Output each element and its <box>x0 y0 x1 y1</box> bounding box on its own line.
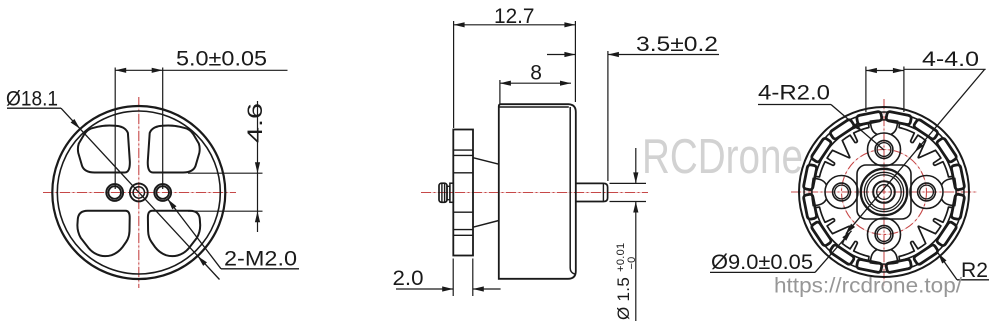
stator tooth strips (4 quadrants) <box>899 123 953 177</box>
base plate section line 6 <box>453 234 473 236</box>
svg-text:Ø9.0±0.05: Ø9.0±0.05 <box>711 251 813 274</box>
dimension 2.0 line and arrows <box>396 288 453 290</box>
dimension 4.6 extension lines <box>188 172 263 174</box>
magnet ring segments <box>803 164 817 190</box>
stator transition slant bottom <box>473 221 499 228</box>
label 4-R2.0 leader <box>831 105 884 151</box>
svg-text:5.0±0.05: 5.0±0.05 <box>176 48 267 71</box>
dimension 5.0±0.05 extension lines <box>114 68 116 190</box>
dimension 12.7 line and arrows <box>454 24 576 26</box>
dimension Ø1.5 line and arrows <box>635 148 637 183</box>
left view centerline horizontal <box>43 192 236 194</box>
center shaft circles <box>873 181 895 203</box>
left view centerline vertical <box>138 97 140 288</box>
svg-text:Ø18.1: Ø18.1 <box>6 88 58 111</box>
right view bolt circle (red) <box>842 150 927 235</box>
svg-text:3.5±0.2: 3.5±0.2 <box>636 33 718 56</box>
label 4-R2.0 underline <box>758 104 831 106</box>
dimension 4-4.0 extension lines <box>865 67 867 113</box>
stator crowns at N/E/S/W <box>870 120 897 135</box>
shaft left neck <box>447 186 450 199</box>
label Ø18.1 diameter leader line <box>61 108 220 279</box>
label Ø9.0±0.05 leader <box>815 231 852 273</box>
motor bell outline <box>499 104 576 279</box>
dimension 5.0±0.05 line and arrows <box>115 69 287 71</box>
screw hole pods <box>868 133 901 166</box>
base plate section line 3 <box>453 172 473 174</box>
svg-text:8: 8 <box>530 61 542 84</box>
center boss circles <box>861 169 907 215</box>
Ø18.1 arrowhead at bottom-right circle edge <box>198 256 207 266</box>
base plate section line 4 <box>453 211 473 213</box>
svg-text:4-R2.0: 4-R2.0 <box>758 82 830 105</box>
label 2-M2.0 leader with arrowhead at right M2 hole <box>168 199 221 269</box>
M2 screw hole left <box>106 184 123 201</box>
base cutout top-left <box>78 125 130 172</box>
dimension 4.6 line and arrows <box>257 101 259 232</box>
right view centerline horizontal <box>791 191 977 193</box>
base plate section line 5 <box>453 229 473 231</box>
Ø18.1 arrowhead at top-left circle edge <box>71 119 80 129</box>
dimension 3.5±0.2 line right <box>608 54 719 56</box>
motor bell inner wall right <box>570 107 574 274</box>
dimension 12.7 extension lines <box>453 21 455 128</box>
motor bell inner lip top <box>500 106 569 108</box>
base cutout bottom-left <box>77 211 129 256</box>
base cutout bottom-right <box>148 211 200 256</box>
rotor rim inner circle <box>804 112 964 272</box>
label R2 leader <box>938 253 957 280</box>
rotor screw holes 4x <box>875 141 893 159</box>
dimension 2.0 extension lines <box>452 259 454 297</box>
M2 screw hole right <box>154 184 171 201</box>
label R2 underline <box>957 279 989 281</box>
dimension 8 line and arrows <box>500 82 571 84</box>
left view outer circle (motor base rim) <box>52 106 225 279</box>
label Ø18.1 leader underline <box>7 107 61 109</box>
stator transition slant top <box>473 158 499 165</box>
dimension Ø1.5 extension lines <box>610 182 647 184</box>
svg-text:4-4.0: 4-4.0 <box>922 48 979 71</box>
label 4-4.0 leader through center <box>846 70 985 234</box>
dimension 3.5±0.2 left arrow <box>547 54 575 56</box>
mounting base plate <box>453 130 473 256</box>
shaft left end c-clip <box>439 183 447 202</box>
label Ø9.0±0.05 underline <box>710 271 815 273</box>
svg-text:12.7: 12.7 <box>494 5 535 28</box>
base plate section line 2 <box>453 154 473 156</box>
base cutout top-right <box>148 125 200 172</box>
rotor outer circle <box>799 107 969 277</box>
dimension 4-4.0 underline <box>904 68 986 70</box>
right view centerline vertical <box>883 99 885 286</box>
label 2-M2.0 underline <box>221 268 299 270</box>
base plate section line 1 <box>453 149 473 151</box>
svg-text:2.0: 2.0 <box>393 267 424 290</box>
hub rounded square <box>857 165 911 219</box>
svg-text:R2: R2 <box>961 259 988 282</box>
svg-text:https://rcdrone.top/: https://rcdrone.top/ <box>774 274 962 298</box>
shaft end chamfer line <box>602 184 604 202</box>
dimension 8 extension line <box>499 80 501 105</box>
middle view centerline <box>421 192 648 194</box>
svg-text:2-M2.0: 2-M2.0 <box>224 248 297 271</box>
svg-text:RCDrone: RCDrone <box>642 130 803 184</box>
svg-text:Ø 1.5 +0.01−0: Ø 1.5 +0.01−0 <box>614 243 638 320</box>
center shaft hole <box>130 184 148 202</box>
svg-text:4.6: 4.6 <box>244 103 267 143</box>
dimension 4-4.0 line and arrows <box>866 70 904 72</box>
left view inner rim circle <box>57 111 220 274</box>
shaft left washer <box>450 183 453 202</box>
shaft (right side) <box>576 183 608 201</box>
dimension 3.5±0.2 extension line <box>607 51 609 181</box>
